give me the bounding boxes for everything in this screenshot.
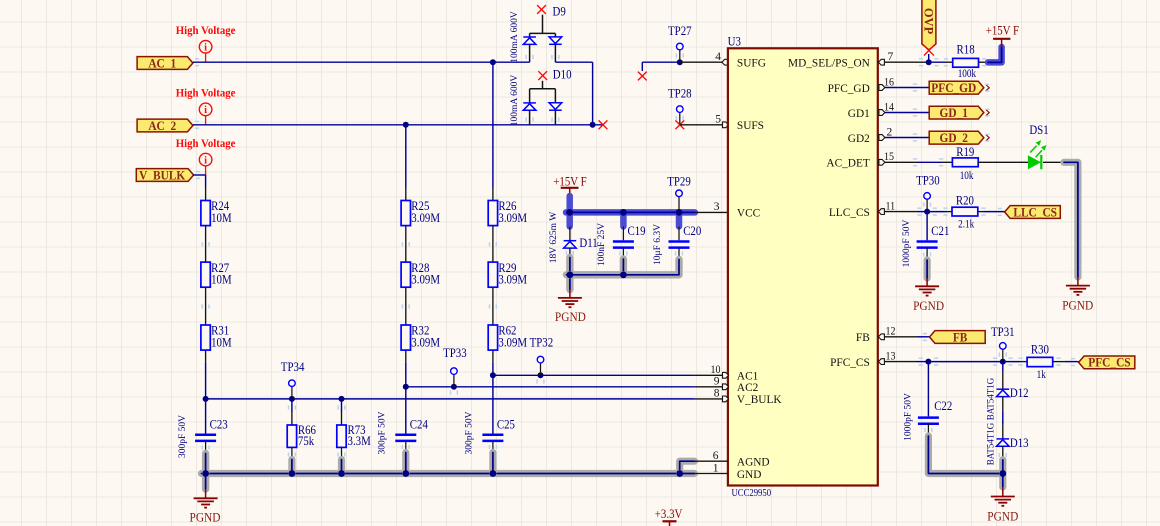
pin 7 wire <box>878 61 929 63</box>
svg-text:TP29: TP29 <box>667 175 691 189</box>
wire AC_2 net <box>193 124 603 126</box>
no-ERC marker AC_2 end <box>599 120 608 129</box>
junction AC_1/R26 chain <box>490 59 496 65</box>
pin 11 glyph <box>878 209 884 215</box>
svg-text:AC_2: AC_2 <box>148 119 176 133</box>
junction gray D11 <box>567 271 574 278</box>
svg-text:PFC_CS: PFC_CS <box>1088 356 1130 370</box>
wire pin13 to R30 <box>928 361 1020 363</box>
thick wire +15V bus <box>566 196 573 212</box>
junction gray C25 <box>490 470 497 477</box>
test point TP32 <box>540 363 542 375</box>
wire chain3 vertical <box>492 62 494 187</box>
svg-text:LLC_CS: LLC_CS <box>1013 205 1057 219</box>
pin 12 glyph <box>878 334 884 340</box>
svg-text:FB: FB <box>953 330 968 344</box>
svg-text:10M: 10M <box>211 273 232 287</box>
pin 4 wire <box>680 61 728 63</box>
junction TP31/D12 <box>1000 359 1006 365</box>
resistor R24 <box>201 201 210 226</box>
capacitor C21 <box>926 212 928 241</box>
capacitor C22 <box>927 362 929 417</box>
LED DS1 <box>1028 155 1041 169</box>
svg-text:MD_SEL/PS_ON: MD_SEL/PS_ON <box>788 56 870 70</box>
ground PGND (C21) <box>926 278 928 286</box>
test point TP33 <box>453 374 455 386</box>
junction OVP <box>926 59 932 65</box>
pin 7 glyph <box>878 59 884 65</box>
pin 12 wire <box>878 336 917 338</box>
svg-text:13: 13 <box>886 350 896 362</box>
svg-text:GND: GND <box>737 467 762 481</box>
svg-text:100mA 600V: 100mA 600V <box>510 75 520 127</box>
svg-text:300pF 50V: 300pF 50V <box>464 411 474 454</box>
svg-text:BAT54T1G: BAT54T1G <box>985 422 995 465</box>
resistor R28 <box>401 262 410 287</box>
dual diode D9 <box>537 5 546 14</box>
svg-text:V_BULK: V_BULK <box>139 168 185 182</box>
pin 14 glyph <box>879 110 885 116</box>
junction gray AGND branch <box>676 470 683 477</box>
svg-text:16: 16 <box>884 76 894 88</box>
no-ERC marker SUFG <box>638 72 647 81</box>
svg-text:100nF 25V: 100nF 25V <box>597 223 607 266</box>
svg-text:GD2: GD2 <box>848 131 870 145</box>
pin 16 glyph <box>879 85 885 91</box>
pin 16 wire <box>878 87 886 89</box>
svg-text:R19: R19 <box>956 145 974 159</box>
port tip chevrons <box>986 85 989 141</box>
wire AC1 sense <box>493 374 695 376</box>
test point TP31 <box>1002 349 1004 361</box>
wire OVP stub <box>928 54 930 62</box>
dual diode D10 <box>538 71 547 80</box>
resistor R73 <box>341 399 343 412</box>
svg-text:1000pF 50V: 1000pF 50V <box>902 219 912 267</box>
pin 2 wire <box>878 137 886 139</box>
pin 5 wire <box>680 124 728 126</box>
svg-text:15: 15 <box>884 151 894 163</box>
svg-text:9: 9 <box>714 376 720 388</box>
svg-text:18V 625m W: 18V 625m W <box>549 212 559 263</box>
capacitor C25 <box>482 435 503 441</box>
svg-text:+15V F: +15V F <box>986 24 1019 38</box>
svg-text:10: 10 <box>711 364 721 376</box>
svg-text:OVP: OVP <box>922 8 936 35</box>
svg-text:10μF 6.3V: 10μF 6.3V <box>653 224 663 265</box>
port LLC_CS <box>1005 206 1061 219</box>
svg-text:PFC_CS: PFC_CS <box>830 355 870 369</box>
svg-text:4: 4 <box>715 51 721 63</box>
port OVP <box>922 0 936 50</box>
svg-text:300pF 50V: 300pF 50V <box>377 411 387 454</box>
svg-text:+15V F: +15V F <box>553 175 586 189</box>
wire SUFG net <box>642 61 680 63</box>
junction bus C19 <box>620 209 627 216</box>
junction gray R73 <box>338 470 345 477</box>
svg-text:3.3M: 3.3M <box>348 434 371 448</box>
junction bus C20/TP29 <box>676 209 683 216</box>
test point TP29 <box>678 197 680 209</box>
svg-text:2: 2 <box>887 126 893 138</box>
svg-text:300pF 50V: 300pF 50V <box>178 415 188 458</box>
junction AC1 chain3 <box>490 372 496 378</box>
port PFC_CS <box>1079 356 1135 369</box>
thick wire C21 ground <box>923 260 930 278</box>
svg-text:C23: C23 <box>210 418 228 432</box>
no-ERC marker OVP <box>924 46 934 56</box>
svg-text:SUFG: SUFG <box>737 56 766 70</box>
pin 9 glyph <box>723 384 729 390</box>
pin 15 wire <box>878 161 917 163</box>
svg-text:TP34: TP34 <box>281 360 305 374</box>
capacitor C23 <box>195 435 216 441</box>
compile marks <box>195 59 199 66</box>
svg-text:3.09M: 3.09M <box>411 336 440 350</box>
svg-text:TP30: TP30 <box>916 174 940 188</box>
svg-text:U3: U3 <box>728 35 741 49</box>
wire R19 to DS1 <box>978 161 1028 163</box>
pin 8 glyph <box>723 396 729 402</box>
svg-text:100mA 600V: 100mA 600V <box>510 11 520 63</box>
svg-text:AC_DET: AC_DET <box>826 156 870 170</box>
svg-text:10k: 10k <box>960 170 974 182</box>
svg-text:GD_2: GD_2 <box>940 131 968 145</box>
thick gray ground bus <box>202 470 680 477</box>
svg-text:PGND: PGND <box>190 511 221 525</box>
svg-text:11: 11 <box>886 200 896 212</box>
thick gray mid ground bus <box>566 258 573 290</box>
svg-text:PGND: PGND <box>987 510 1018 524</box>
port GD_2 <box>929 131 984 144</box>
svg-text:GD1: GD1 <box>848 106 870 120</box>
junction TP30 <box>924 209 930 215</box>
pin 1 wire <box>694 473 728 475</box>
svg-text:TP33: TP33 <box>443 346 467 360</box>
resistor R20 <box>927 211 945 213</box>
wire AC2 sense <box>406 386 695 388</box>
junction bus D11 <box>566 209 573 216</box>
svg-text:10M: 10M <box>211 336 232 350</box>
svg-text:2.1k: 2.1k <box>958 219 974 231</box>
svg-text:D13: D13 <box>1010 436 1029 450</box>
svg-text:8: 8 <box>714 388 720 400</box>
svg-text:PGND: PGND <box>1062 299 1093 313</box>
pin 14 wire <box>878 112 886 114</box>
svg-text:C21: C21 <box>931 224 949 238</box>
svg-text:High Voltage: High Voltage <box>176 88 236 100</box>
svg-text:R20: R20 <box>956 194 974 208</box>
junction AC2 chain2 <box>403 384 409 390</box>
svg-text:DS1: DS1 <box>1029 123 1048 137</box>
junction D13 ground <box>999 470 1006 477</box>
svg-text:PGND: PGND <box>555 310 586 324</box>
pin 4 glyph <box>722 59 728 65</box>
port AC_1 <box>137 57 193 70</box>
svg-text:10M: 10M <box>211 211 232 225</box>
test point TP34 <box>291 387 293 399</box>
svg-text:UCC29950: UCC29950 <box>732 487 772 499</box>
svg-text:1k: 1k <box>1037 369 1046 381</box>
svg-text:14: 14 <box>884 101 894 113</box>
junction TP27 <box>677 59 683 65</box>
svg-text:6: 6 <box>713 450 719 462</box>
ground PGND (left) <box>205 489 207 498</box>
thick wire DS1 ground <box>1064 162 1078 277</box>
svg-text:i: i <box>204 105 207 116</box>
port FB <box>930 331 986 344</box>
svg-text:FB: FB <box>856 330 870 344</box>
junction V_BULK chain1 <box>203 396 209 402</box>
resistor R29 <box>488 262 497 287</box>
wire V_BULK vertical <box>193 174 206 176</box>
junction R73 <box>339 396 345 402</box>
svg-text:C24: C24 <box>410 418 429 432</box>
svg-text:3: 3 <box>714 201 720 213</box>
junction TP34/R66 <box>289 396 295 402</box>
svg-text:GD_1: GD_1 <box>940 106 968 120</box>
pin 6 wire <box>694 460 728 462</box>
wire V_BULK sense <box>206 398 695 400</box>
svg-text:High Voltage: High Voltage <box>176 138 236 150</box>
pin 5 glyph <box>723 122 729 128</box>
capacitor C19 <box>622 227 624 241</box>
port AC_2 <box>137 119 193 132</box>
svg-text:C20: C20 <box>683 224 701 238</box>
junction TP33 <box>451 384 457 390</box>
junction AC_2/D9 branch <box>590 122 596 128</box>
wire AC_1 net <box>193 61 530 63</box>
op-amp U3 body <box>728 48 878 485</box>
svg-text:AC_1: AC_1 <box>148 56 176 70</box>
diode D13 <box>997 439 1010 446</box>
wire DS1 to ground <box>1043 161 1064 163</box>
svg-text:100k: 100k <box>958 68 977 80</box>
pin 11 wire <box>878 211 917 213</box>
pin 15 glyph <box>879 159 885 165</box>
svg-text:R30: R30 <box>1031 343 1049 357</box>
svg-text:3.09M: 3.09M <box>411 211 440 225</box>
junction TP32 <box>538 372 544 378</box>
svg-text:PFC_GD: PFC_GD <box>931 81 976 95</box>
pin 10 glyph <box>723 372 729 378</box>
svg-text:12: 12 <box>886 326 896 338</box>
thick wire +15V elbow <box>988 47 1002 62</box>
junction AC_2/R25 chain <box>403 122 409 128</box>
svg-text:C25: C25 <box>497 418 515 432</box>
svg-text:TP28: TP28 <box>668 87 692 101</box>
junction gray C23 <box>202 470 209 477</box>
ground PGND (mid) <box>569 290 571 298</box>
svg-text:+3.3V: +3.3V <box>655 507 683 521</box>
svg-text:3.09M: 3.09M <box>498 211 527 225</box>
resistor R30 <box>1027 357 1053 366</box>
wire D9 to AC_2 <box>555 61 592 63</box>
svg-text:TP27: TP27 <box>668 24 692 38</box>
resistor R66 <box>291 399 293 412</box>
port V_BULK <box>136 169 193 182</box>
diode D12 <box>1002 362 1004 371</box>
pin 3 wire <box>695 211 728 213</box>
port GD_1 <box>929 106 984 119</box>
svg-text:D11: D11 <box>579 236 597 250</box>
svg-text:3.09M: 3.09M <box>498 273 527 287</box>
svg-text:75k: 75k <box>298 434 315 448</box>
svg-text:3.09M TP32: 3.09M TP32 <box>498 336 553 350</box>
pin 2 glyph <box>879 135 885 141</box>
port PFC_GD <box>929 81 984 94</box>
resistor R31 <box>201 325 210 350</box>
pin 13 wire <box>878 361 917 363</box>
svg-text:3.09M: 3.09M <box>411 273 440 287</box>
wire R20 to LLC_CS <box>978 211 984 213</box>
resistor R27 <box>201 262 210 287</box>
test point TP28 <box>679 112 681 124</box>
junction gray C19 <box>620 271 627 278</box>
resistor R25 <box>401 201 410 226</box>
svg-text:i: i <box>204 43 207 54</box>
junction gray C24 <box>402 470 409 477</box>
svg-text:VCC: VCC <box>737 206 760 220</box>
svg-text:7: 7 <box>888 51 894 63</box>
svg-text:C19: C19 <box>628 224 646 238</box>
svg-text:LLC_CS: LLC_CS <box>829 205 870 219</box>
no-ERC marker TP28 <box>675 120 684 129</box>
test point TP27 <box>679 50 681 62</box>
junction C22 <box>925 359 931 365</box>
svg-text:i: i <box>204 155 207 166</box>
ground PGND (D13) <box>1002 487 1004 496</box>
resistor R26 <box>488 201 497 226</box>
svg-text:1000pF 50V: 1000pF 50V <box>903 393 913 441</box>
svg-text:BAT54T1G: BAT54T1G <box>985 377 995 420</box>
wire R30 to PFC_CS <box>1053 361 1065 363</box>
svg-text:D12: D12 <box>1010 386 1029 400</box>
ground PGND (DS1) <box>1077 277 1079 286</box>
svg-text:R18: R18 <box>957 43 975 57</box>
pin 13 glyph <box>878 359 884 365</box>
svg-text:High Voltage: High Voltage <box>176 25 236 37</box>
thick wire D13 ground <box>999 460 1006 487</box>
svg-text:1: 1 <box>713 462 719 474</box>
svg-text:SUFS: SUFS <box>737 118 764 132</box>
svg-text:TP31: TP31 <box>991 325 1015 339</box>
capacitor C20 <box>678 227 680 241</box>
resistor R19 <box>952 158 978 167</box>
junction gray R66 <box>289 470 296 477</box>
thick wire C22 ground <box>928 436 1002 474</box>
svg-text:D9: D9 <box>553 5 566 19</box>
wire chain2 vertical <box>405 125 407 188</box>
svg-text:PFC_GD: PFC_GD <box>828 81 871 95</box>
resistor R62 <box>488 325 497 350</box>
capacitor C24 <box>395 435 416 441</box>
svg-text:D10: D10 <box>553 67 572 81</box>
svg-text:C22: C22 <box>934 399 952 413</box>
svg-text:V_BULK: V_BULK <box>737 392 782 406</box>
wire D12 to D13 <box>1002 397 1004 412</box>
svg-text:5: 5 <box>715 114 721 126</box>
resistor R32 <box>401 325 410 350</box>
test point TP30 <box>926 199 928 211</box>
resistor R18 <box>929 61 946 63</box>
wire R18 to +15V <box>979 61 989 63</box>
svg-text:PGND: PGND <box>913 299 944 313</box>
zener diode D11 <box>569 227 571 241</box>
